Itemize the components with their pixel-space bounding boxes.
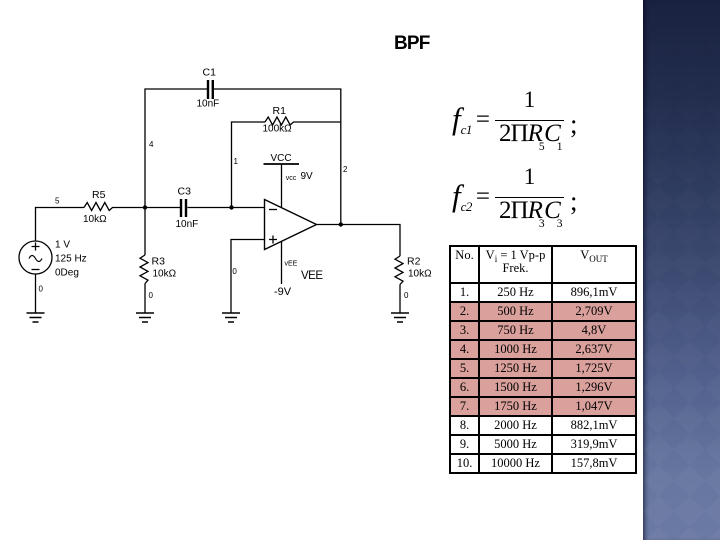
svg-text:R3: R3: [152, 256, 166, 268]
svg-text:125 Hz: 125 Hz: [55, 254, 87, 265]
svg-text:2: 2: [343, 165, 348, 174]
svg-text:R5: R5: [92, 189, 106, 201]
svg-text:VEE: VEE: [301, 270, 323, 282]
svg-text:9V: 9V: [301, 171, 314, 182]
svg-text:0: 0: [39, 285, 44, 294]
svg-text:vEE: vEE: [285, 261, 298, 268]
svg-text:1 V: 1 V: [55, 240, 70, 251]
svg-text:0: 0: [149, 291, 154, 300]
svg-text:0: 0: [404, 291, 409, 300]
svg-text:R1: R1: [273, 105, 287, 117]
svg-text:100kΩ: 100kΩ: [263, 124, 293, 135]
svg-text:10kΩ: 10kΩ: [408, 269, 432, 280]
svg-text:10kΩ: 10kΩ: [153, 269, 177, 280]
svg-text:VCC: VCC: [271, 153, 292, 164]
svg-text:4: 4: [149, 140, 154, 149]
svg-text:10kΩ: 10kΩ: [83, 214, 107, 225]
svg-text:0: 0: [232, 267, 237, 276]
svg-text:10nF: 10nF: [176, 219, 199, 230]
svg-text:C3: C3: [178, 186, 192, 198]
svg-text:C1: C1: [203, 67, 217, 79]
svg-text:-9V: -9V: [274, 286, 292, 298]
svg-text:0Deg: 0Deg: [55, 268, 79, 279]
svg-text:10nF: 10nF: [197, 99, 220, 110]
svg-text:vcc: vcc: [286, 175, 297, 182]
svg-text:1: 1: [234, 157, 239, 166]
svg-text:5: 5: [55, 197, 60, 206]
svg-text:R2: R2: [407, 256, 421, 268]
